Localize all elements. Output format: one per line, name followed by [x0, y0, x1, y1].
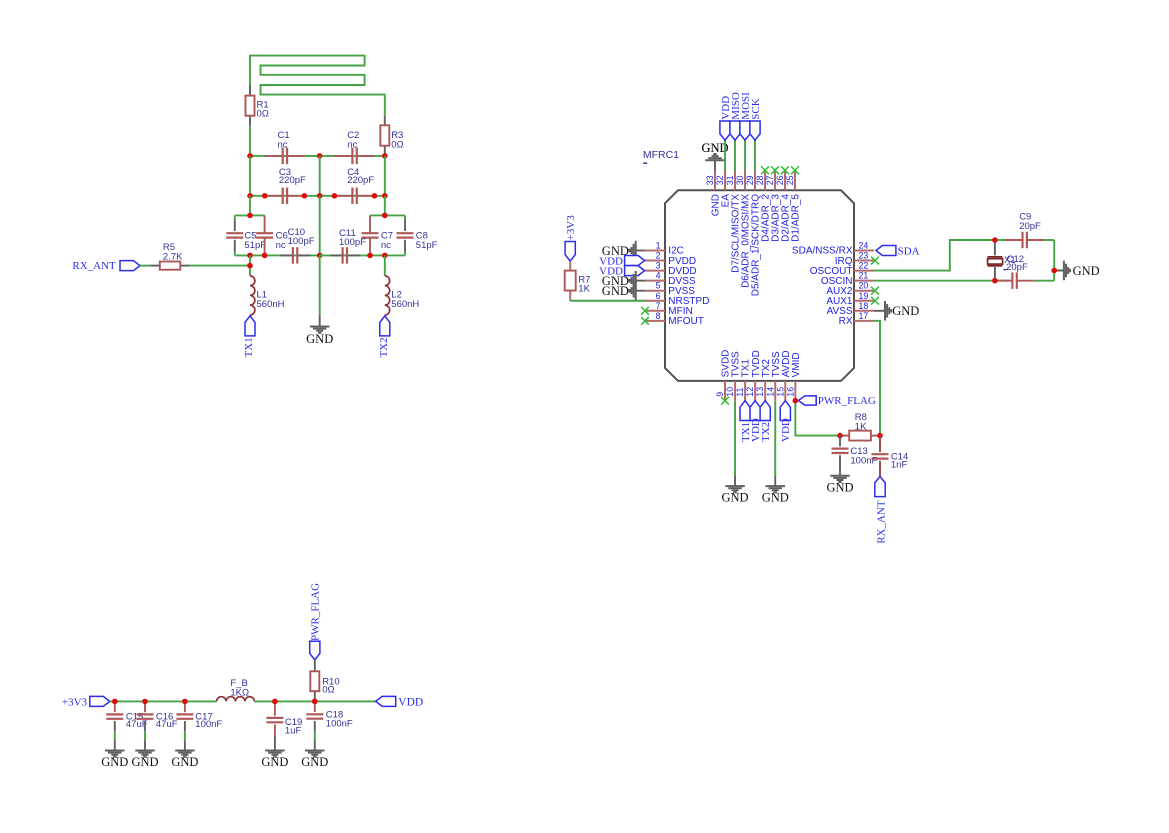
junction row3 C6 [262, 253, 268, 259]
crystal X1 [987, 240, 1002, 281]
junction row2 right [382, 193, 388, 199]
wire R5 to L1 node [190, 265, 250, 267]
C11 label [339, 228, 366, 248]
C9 label [1019, 212, 1041, 232]
wire C12 row left [995, 280, 1010, 282]
svg-text:8: 8 [656, 311, 661, 321]
capacitor C6 [256, 215, 273, 255]
hier label TX1 shape [245, 316, 255, 336]
junction RX_ANT L1 [247, 263, 253, 269]
pin 19 AUX1 [826, 291, 874, 307]
wire SCK to pin [754, 140, 756, 170]
wire pin21 OSCIN to crystal [874, 280, 995, 282]
no-connect pin 27 [771, 166, 779, 174]
hier label RX_ANT shape [120, 261, 140, 271]
ground C19 [261, 751, 288, 770]
svg-text:31: 31 [725, 175, 735, 185]
junction box right top [382, 213, 388, 219]
resistor R10 pins [314, 660, 316, 702]
C19 label [285, 717, 302, 737]
svg-text:1uF: 1uF [285, 726, 302, 737]
wire box left top [235, 214, 265, 216]
svg-text:17: 17 [859, 311, 869, 321]
C2 label [347, 130, 359, 151]
ground C15 [101, 740, 128, 769]
wire C18 to gnd [314, 731, 316, 740]
junction pin16 [793, 398, 799, 404]
svg-text:100nF: 100nF [195, 719, 222, 730]
resistor R3 [380, 125, 389, 145]
resistor R3 pins [384, 116, 386, 154]
C14 label [891, 452, 908, 471]
svg-text:0Ω: 0Ω [391, 140, 403, 151]
power label VDD pin3 shape [625, 266, 645, 276]
C10 label [288, 227, 315, 247]
junction row1 left [247, 153, 253, 159]
svg-text:23: 23 [859, 251, 869, 261]
junction row2 center [317, 193, 323, 199]
svg-text:560nH: 560nH [391, 299, 419, 310]
power label +3V3 rail shape [90, 696, 110, 706]
svg-text:20pF: 20pF [1006, 262, 1028, 273]
svg-text:0Ω: 0Ω [257, 109, 269, 120]
svg-text:100pF: 100pF [339, 237, 366, 248]
wire left col box-L1 [249, 255, 251, 276]
inductor L2 [385, 276, 390, 315]
capacitor C8 leads [404, 215, 406, 255]
hier label RX_ANT bottom shape [875, 476, 885, 496]
C5 label [244, 231, 266, 251]
wire C12 to right rail [1035, 280, 1055, 282]
C15 label [126, 712, 148, 731]
pin 24 SDA/NSS/RX [792, 241, 874, 257]
pin 14 TVSS [765, 351, 782, 401]
svg-text:51pF: 51pF [244, 240, 266, 251]
svg-text:SCK: SCK [750, 98, 762, 119]
wire R7 to pin6 [570, 300, 645, 302]
power label VDD pin15 shape [780, 401, 790, 421]
power label TX1 bottom shape [740, 401, 750, 421]
svg-text:GND: GND [826, 480, 853, 494]
R8 label [855, 412, 867, 432]
svg-text:1: 1 [656, 241, 661, 251]
ground C17 [171, 740, 198, 769]
svg-text:D1/ADR_5: D1/ADR_5 [791, 194, 802, 242]
svg-text:220pF: 220pF [347, 175, 374, 186]
capacitor C17 [176, 701, 193, 731]
svg-text:4: 4 [656, 271, 661, 281]
no-connect pin19 [871, 297, 879, 305]
ground C16 [131, 740, 158, 769]
L2 label [391, 290, 419, 310]
junction row2 C3 pin1 [262, 193, 268, 199]
svg-text:10: 10 [725, 387, 735, 397]
svg-text:nc: nc [347, 139, 357, 150]
power label VDD pin2 shape [625, 256, 645, 266]
svg-text:TX2: TX2 [378, 337, 390, 357]
capacitor C5 [226, 233, 243, 237]
junction C18 [312, 699, 318, 705]
wire rail 1 [110, 700, 217, 702]
svg-text:22: 22 [859, 261, 869, 271]
pin 31 D7/SCL/MISO/TX [725, 171, 742, 273]
U1 reference MFRC1 [643, 149, 679, 163]
svg-text:GND: GND [722, 491, 749, 505]
power GND top symbol [701, 141, 728, 155]
wire R3 to row1 [384, 154, 386, 156]
ground pin10 [722, 476, 749, 505]
pin 13 TX2 [755, 359, 772, 401]
junction R8 right [877, 433, 883, 439]
power flag R10 shape [310, 641, 320, 660]
svg-text:GND: GND [892, 304, 919, 318]
ground pin4 [602, 271, 645, 291]
svg-text:GND: GND [301, 755, 328, 769]
power label MOSI shape [740, 121, 750, 140]
resistor R8 pins [840, 435, 880, 437]
capacitor C4 [335, 188, 375, 205]
svg-text:MFOUT: MFOUT [668, 316, 704, 327]
svg-text:26: 26 [775, 175, 785, 185]
capacitor C10 [293, 247, 297, 264]
svg-text:5: 5 [656, 281, 661, 291]
R7 label [578, 274, 590, 294]
C6 label [276, 231, 288, 251]
capacitor C1 [265, 148, 305, 165]
wire crystal top to C9 [995, 239, 1005, 241]
capacitor C9 [1005, 232, 1044, 249]
pin 15 AVDD [775, 350, 792, 400]
pin 21 OSCIN [821, 271, 874, 287]
R5 label [163, 242, 183, 263]
junction C15 [112, 699, 118, 705]
inductor L1 [250, 276, 255, 315]
wire center col row1-row2 [319, 156, 321, 196]
svg-text:20pF: 20pF [1019, 221, 1041, 232]
ground pin33 [701, 141, 728, 171]
capacitor C16 [137, 701, 154, 731]
pin 22 OSCOUT [810, 261, 874, 277]
C12 label [1003, 254, 1028, 273]
svg-text:100nF: 100nF [326, 718, 353, 729]
wire rail 2 [254, 700, 375, 702]
resistor R8 [849, 431, 871, 441]
svg-text:PWR_FLAG: PWR_FLAG [310, 583, 322, 641]
svg-text:32: 32 [715, 175, 725, 185]
pin 20 AUX2 [826, 281, 874, 297]
capacitor C5 leads [234, 215, 236, 255]
junction C19 [272, 699, 278, 705]
junction row2 C4 pin2 [372, 193, 378, 199]
junction row3 center [317, 253, 323, 259]
power label MISO shape [730, 121, 740, 140]
power label TX2 bottom shape [760, 401, 770, 421]
junction box left top [247, 213, 253, 219]
pin 27 D3/ADR_3 [765, 171, 782, 242]
capacitor C7 [362, 215, 379, 255]
no-connect pin9 [721, 397, 729, 405]
pin 9 SVDD [715, 350, 732, 401]
svg-text:9: 9 [715, 392, 725, 397]
svg-text:RX_ANT: RX_ANT [72, 260, 116, 272]
power label VDD rail shape [376, 696, 396, 706]
svg-text:GND: GND [762, 491, 789, 505]
junction C17 [182, 699, 188, 705]
svg-text:TX2: TX2 [760, 422, 772, 442]
junction crystal gnd [1051, 268, 1057, 274]
no-connect pin 28 [761, 166, 769, 174]
resistor R7 pins [569, 261, 571, 301]
resistor R10 [310, 671, 319, 691]
svg-text:GND: GND [101, 755, 128, 769]
pin 30 D6/ADR_0/MOSI/MX [735, 171, 752, 288]
wire C9 to right rail [1044, 239, 1054, 241]
capacitor C15 [106, 701, 123, 731]
pin 33 GND [705, 171, 722, 217]
capacitor C3 [265, 188, 305, 205]
wire MISO to pin [734, 140, 736, 170]
no-connect pin8 [641, 317, 649, 325]
wire right col box-L2 [384, 255, 386, 276]
svg-text:3: 3 [656, 261, 661, 271]
svg-text:25: 25 [785, 175, 795, 185]
C3 label [279, 167, 306, 186]
svg-text:SDA: SDA [898, 246, 920, 258]
svg-text:29: 29 [745, 175, 755, 185]
power flag pin16 shape [798, 396, 816, 405]
wire left col row1-row2 [249, 156, 251, 196]
wire pin16 VMID down [795, 401, 840, 436]
wire MOSI to pin [744, 140, 746, 170]
capacitor C10 leads gray [280, 254, 310, 256]
svg-text:100nF: 100nF [850, 455, 877, 466]
svg-text:11: 11 [735, 387, 745, 396]
wire pin10 to gnd [734, 401, 736, 476]
svg-text:1KΩ: 1KΩ [230, 687, 249, 698]
svg-text:TX1: TX1 [243, 337, 255, 357]
svg-text:14: 14 [765, 387, 775, 397]
C8 label [416, 231, 438, 251]
svg-text:47uF: 47uF [156, 719, 178, 730]
svg-text:VMID: VMID [791, 352, 802, 377]
pin 29 D5/ADR_1/SCK/DTRQ [745, 171, 762, 297]
wire C17 to gnd [184, 731, 186, 740]
L1 label [257, 290, 285, 310]
svg-text:30: 30 [735, 175, 745, 185]
resistor R1 [246, 96, 255, 116]
power label SCK shape [750, 121, 760, 140]
svg-text:GND: GND [261, 755, 288, 769]
pin 25 D1/ADR_5 [785, 171, 802, 242]
pin 23 IRQ [835, 251, 874, 267]
svg-text:GND: GND [1073, 264, 1100, 278]
svg-text:GND: GND [171, 755, 198, 769]
wire row1 C1C2 [250, 155, 385, 157]
capacitor C11 leads gray [330, 254, 359, 256]
junction row2 left [247, 193, 253, 199]
wire crystal right rail [1053, 240, 1055, 281]
wire pin22 OSCOUT to crystal [874, 240, 995, 271]
svg-text:GND: GND [131, 755, 158, 769]
svg-text:2.7K: 2.7K [163, 252, 183, 263]
op-amp U1 MFRC1 body [665, 190, 854, 381]
C13 label [850, 446, 877, 467]
pin 26 D2/ADR_4 [775, 171, 792, 242]
junction row3 C7 [367, 253, 373, 259]
resistor R5 [160, 262, 181, 270]
R3 label [391, 130, 403, 150]
pin 3 DVDD [645, 261, 697, 277]
pin 1 I2C [645, 241, 684, 257]
svg-text:21: 21 [859, 271, 869, 281]
svg-text:560nH: 560nH [257, 299, 285, 310]
ground antenna center [306, 315, 333, 346]
capacitor C19 [266, 701, 283, 736]
no-connect pin 26 [781, 166, 789, 174]
junction R8 left [837, 433, 843, 439]
R10 label [322, 677, 339, 696]
wire C15 to gnd [114, 731, 116, 740]
C7 label [381, 231, 393, 251]
wire center col to GND [319, 255, 321, 315]
pin 6 NRSTPD [645, 291, 709, 307]
wire pin14 to gnd [774, 401, 776, 476]
pin 16 VMID [785, 352, 802, 400]
ground pin18 [874, 301, 919, 321]
svg-text:16: 16 [785, 387, 795, 397]
pin 12 TVDD [745, 350, 762, 401]
svg-text:VDD: VDD [398, 697, 423, 709]
capacitor C14 [872, 436, 889, 477]
svg-text:27: 27 [765, 175, 775, 185]
ground pin5 [602, 281, 645, 301]
ground pin1 [602, 241, 645, 261]
svg-text:51pF: 51pF [416, 240, 438, 251]
ground crystal wire [1054, 270, 1064, 272]
wire right col row1-row2 [384, 156, 386, 196]
junction crystal bottom [992, 278, 998, 284]
svg-text:1K: 1K [855, 421, 867, 432]
junction row2 C3 pin2 [302, 193, 308, 199]
svg-text:nc: nc [381, 240, 391, 251]
pin 7 MFIN [645, 301, 693, 317]
svg-text:12: 12 [745, 387, 755, 397]
capacitor C2 [335, 148, 375, 165]
wire row3 left [235, 254, 320, 256]
wire right col row2-box [384, 196, 386, 216]
svg-text:GND: GND [306, 332, 333, 346]
svg-text:nc: nc [278, 139, 288, 150]
wire row3 right [320, 254, 405, 256]
hier label SDA shape [876, 246, 896, 256]
junction row3 left [247, 253, 253, 259]
pin 2 PVDD [645, 251, 696, 267]
no-connect pin 25 [791, 166, 799, 174]
wire C16 to gnd [144, 731, 146, 740]
svg-text:20: 20 [859, 281, 869, 291]
wire VDD to pin [724, 140, 726, 170]
svg-text:0Ω: 0Ω [322, 685, 334, 696]
junction row1 right [382, 153, 388, 159]
svg-text:+3V3: +3V3 [565, 215, 577, 241]
power label VDD shape [720, 121, 730, 140]
no-connect pin20 [871, 287, 879, 295]
capacitor C11 [343, 247, 347, 264]
svg-text:19: 19 [859, 291, 869, 301]
wire row2 C3C4 [250, 195, 385, 197]
ground C13 [826, 476, 853, 495]
ground crystal [1054, 261, 1099, 281]
C18 label [326, 710, 353, 730]
svg-text:220pF: 220pF [279, 175, 306, 186]
svg-text:RX: RX [839, 316, 853, 327]
svg-text:+3V3: +3V3 [62, 696, 88, 708]
wire RX_ANT to R5 [140, 265, 151, 267]
hier label TX2 shape [380, 316, 390, 336]
svg-text:24: 24 [859, 241, 869, 251]
C1 label [278, 130, 290, 151]
svg-text:7: 7 [656, 301, 661, 311]
wire box right top [370, 214, 405, 216]
pin 32 EA [715, 171, 732, 208]
capacitor C8 [397, 233, 414, 237]
junction R10 [312, 699, 318, 705]
C4 label [347, 167, 374, 186]
ferrite bead F_B [217, 697, 255, 702]
resistor R5 pins [151, 265, 191, 267]
svg-text:28: 28 [755, 175, 765, 185]
svg-text:GND: GND [602, 284, 629, 298]
svg-text:RX_ANT: RX_ANT [876, 500, 888, 544]
junction row3 right [382, 253, 388, 259]
svg-text:100pF: 100pF [288, 236, 315, 247]
junction C16 [142, 699, 148, 705]
ground C18 [301, 740, 328, 769]
svg-text:1K: 1K [578, 284, 590, 295]
resistor R7 [565, 271, 576, 291]
svg-text:6: 6 [656, 291, 661, 301]
F_B label [230, 678, 249, 698]
junction row1 center [317, 153, 323, 159]
capacitor C19 gnd lead [274, 736, 276, 751]
ground pin14 [762, 476, 789, 505]
capacitor C12 [996, 272, 1035, 289]
pin 28 D4/ADR_2 [755, 171, 772, 242]
no-connect pin23 [871, 257, 879, 265]
pin 10 TVSS [725, 351, 742, 401]
wire R1 to row1 [249, 126, 251, 156]
pin 8 MFOUT [645, 311, 704, 327]
wire center col row2-row3 [319, 196, 321, 256]
junction crystal top [992, 237, 998, 243]
antenna meander wire [250, 56, 385, 116]
pin 17 RX [839, 311, 874, 327]
svg-text:VDD: VDD [780, 418, 792, 442]
R1 label [257, 99, 269, 119]
pin 4 DVSS [645, 271, 696, 287]
power label +3V3 shape [565, 242, 575, 262]
wire left col row2-box [249, 196, 251, 216]
svg-text:33: 33 [705, 175, 715, 185]
pin 18 AVSS [827, 301, 874, 317]
resistor R1 pins [249, 85, 251, 126]
svg-text:15: 15 [775, 387, 785, 397]
svg-text:2: 2 [656, 251, 661, 261]
pin 5 PVSS [645, 281, 695, 297]
C16 label [156, 712, 178, 731]
svg-text:MFRC1: MFRC1 [643, 149, 679, 161]
no-connect pin7 [641, 307, 649, 315]
